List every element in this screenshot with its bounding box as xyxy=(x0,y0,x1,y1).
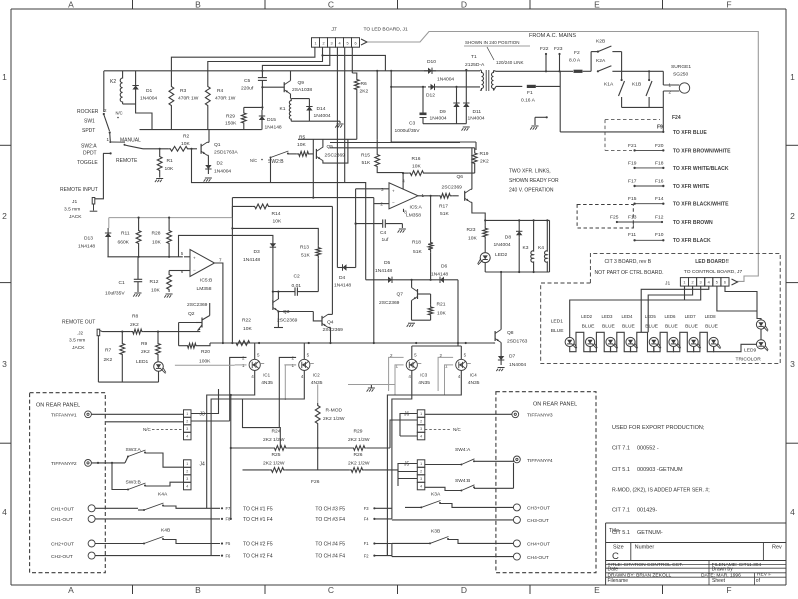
resistor R18 xyxy=(412,195,433,280)
svg-text:F2: F2 xyxy=(364,553,370,558)
switch SW3:B xyxy=(111,462,184,491)
fuse F23 xyxy=(554,46,563,71)
svg-text:LED7: LED7 xyxy=(685,314,697,319)
LED LED7 xyxy=(685,314,701,349)
svg-text:3: 3 xyxy=(186,427,188,431)
svg-text:D12: D12 xyxy=(426,93,435,99)
svg-text:Q2: Q2 xyxy=(188,311,195,317)
svg-text:J5: J5 xyxy=(404,462,410,468)
wire xyxy=(662,107,664,131)
svg-text:.J2: .J2 xyxy=(77,331,84,336)
svg-text:ROCKER: ROCKER xyxy=(77,109,99,115)
label led board xyxy=(684,259,743,275)
capacitor C4 xyxy=(355,219,403,243)
svg-text:2K2: 2K2 xyxy=(480,159,489,165)
terminal TIFFANY#1 xyxy=(51,411,91,419)
wire xyxy=(231,447,390,449)
wire xyxy=(208,47,323,71)
svg-text:2SC2369: 2SC2369 xyxy=(379,300,400,306)
svg-text:10K: 10K xyxy=(297,142,306,148)
diode D2 xyxy=(205,160,231,175)
svg-text:D13: D13 xyxy=(84,236,93,242)
svg-text:F1: F1 xyxy=(364,541,370,546)
resistor R11 xyxy=(118,217,142,257)
svg-text:J1: J1 xyxy=(72,199,77,205)
svg-text:CH2+OUT: CH2+OUT xyxy=(51,542,74,548)
svg-text:C1: C1 xyxy=(119,280,126,286)
transistor Q4 xyxy=(313,206,343,343)
svg-text:3: 3 xyxy=(2,359,7,369)
wire xyxy=(175,364,235,366)
svg-text:REMOTE OUT: REMOTE OUT xyxy=(62,320,95,326)
relay contact K1A xyxy=(604,71,625,107)
svg-text:N/C: N/C xyxy=(116,111,123,116)
resistor R19 xyxy=(472,148,489,173)
svg-text:D7: D7 xyxy=(509,354,516,360)
svg-text:LED1: LED1 xyxy=(551,319,564,325)
svg-text:2K2 1/2W: 2K2 1/2W xyxy=(348,461,370,467)
wire xyxy=(390,70,476,150)
wire xyxy=(169,257,190,271)
svg-text:FROM A.C. MAINS: FROM A.C. MAINS xyxy=(529,33,576,39)
svg-text:R13: R13 xyxy=(300,245,309,251)
terminal CH3+OUT xyxy=(513,504,550,512)
svg-text:1: 1 xyxy=(790,72,795,82)
svg-text:F16: F16 xyxy=(655,178,664,184)
svg-text:Filename: Filename xyxy=(608,578,629,584)
svg-text:000552 -: 000552 - xyxy=(637,445,659,451)
svg-text:J3: J3 xyxy=(200,412,206,418)
fuse F5 row xyxy=(221,541,273,547)
svg-text:LED3: LED3 xyxy=(602,314,614,319)
svg-text:TO CONTROL BOARD, J7: TO CONTROL BOARD, J7 xyxy=(684,269,743,275)
svg-text:IC4: IC4 xyxy=(470,372,477,377)
diode D4 xyxy=(334,223,357,289)
switch SW2:B xyxy=(250,151,297,183)
svg-text:1000uf/35V: 1000uf/35V xyxy=(395,128,421,134)
svg-text:4: 4 xyxy=(338,41,340,45)
wire xyxy=(232,205,332,207)
wire xyxy=(95,507,138,509)
svg-text:K1: K1 xyxy=(280,106,286,112)
wire xyxy=(285,365,296,400)
svg-text:Q9: Q9 xyxy=(298,80,305,86)
transistor Q7 xyxy=(379,280,431,320)
svg-text:DPDT: DPDT xyxy=(83,151,97,157)
svg-text:220uf: 220uf xyxy=(241,86,254,92)
svg-text:1N4004: 1N4004 xyxy=(140,96,157,102)
capacitor C3 xyxy=(395,87,427,134)
svg-text:BLUE: BLUE xyxy=(582,323,596,329)
svg-text:TO CH #2 F4: TO CH #2 F4 xyxy=(243,554,273,560)
svg-text:C: C xyxy=(612,551,619,562)
wire xyxy=(351,47,353,73)
capacitor C5 xyxy=(241,70,267,92)
svg-text:0.16 A: 0.16 A xyxy=(521,98,536,104)
wire xyxy=(232,197,373,199)
terminal CH1+OUT xyxy=(51,505,95,513)
svg-text:CH4+OUT: CH4+OUT xyxy=(527,542,550,548)
wire xyxy=(262,47,329,71)
resistor R25 xyxy=(263,452,286,472)
transistor Q8 xyxy=(493,330,528,345)
wire xyxy=(108,218,110,228)
fuse F17-F16 xyxy=(628,178,710,190)
connector J3 xyxy=(184,410,206,440)
svg-text:SURGE1: SURGE1 xyxy=(671,64,691,70)
LED LED6 xyxy=(665,314,681,349)
fuse F8 row xyxy=(221,517,273,523)
svg-text:CIT 7.1: CIT 7.1 xyxy=(612,445,630,451)
ground xyxy=(155,179,163,183)
wire xyxy=(390,86,480,88)
svg-text:Q7: Q7 xyxy=(397,292,404,298)
fuse F11-F10 xyxy=(628,232,711,244)
op-amp IC5:B xyxy=(181,250,222,293)
wire xyxy=(717,286,757,311)
svg-text:C2: C2 xyxy=(294,274,301,280)
svg-text:2K2: 2K2 xyxy=(104,357,113,363)
svg-text:150K: 150K xyxy=(225,121,237,127)
svg-text:T1: T1 xyxy=(471,54,477,60)
svg-text:R29: R29 xyxy=(354,429,363,435)
capacitor C2 xyxy=(273,274,318,296)
wire xyxy=(641,286,709,332)
svg-text:1N4148: 1N4148 xyxy=(265,125,282,131)
wire xyxy=(243,469,391,471)
connector J6 xyxy=(400,410,425,440)
svg-text:+: + xyxy=(193,255,196,260)
wire xyxy=(725,286,761,320)
svg-text:10K: 10K xyxy=(151,288,160,294)
svg-text:470R 1W: 470R 1W xyxy=(178,96,199,102)
svg-text:10uf/35V: 10uf/35V xyxy=(105,291,125,297)
svg-text:BLUE: BLUE xyxy=(665,323,679,329)
svg-text:2K2 1/2W: 2K2 1/2W xyxy=(323,416,345,422)
svg-text:REMOTE: REMOTE xyxy=(116,158,138,164)
terminal TIFFANY#2 xyxy=(51,460,91,468)
svg-text:N/C: N/C xyxy=(250,158,257,163)
svg-text:10K: 10K xyxy=(437,311,446,317)
svg-text:LED1: LED1 xyxy=(136,359,149,365)
svg-text:F10: F10 xyxy=(655,232,664,238)
svg-text:K3A: K3A xyxy=(431,492,441,498)
resistor R2 xyxy=(168,134,197,152)
svg-text:GETNUM-: GETNUM- xyxy=(637,530,663,536)
panel box left xyxy=(30,393,106,573)
wire xyxy=(344,47,346,182)
ground xyxy=(204,178,212,182)
svg-text:BLUE: BLUE xyxy=(622,323,636,329)
svg-text:Rev: Rev xyxy=(772,545,782,551)
svg-text:1: 1 xyxy=(186,412,188,416)
svg-text:−: − xyxy=(193,267,196,272)
label from ac mains xyxy=(529,33,576,39)
svg-text:R3: R3 xyxy=(180,88,187,94)
svg-text:BLUE: BLUE xyxy=(685,323,699,329)
svg-text:4: 4 xyxy=(420,435,422,439)
LED LED9 xyxy=(736,320,769,363)
wire xyxy=(570,286,685,337)
svg-text:4: 4 xyxy=(2,507,7,517)
wire xyxy=(143,148,168,150)
svg-text:IC2: IC2 xyxy=(313,372,320,377)
wire xyxy=(184,507,221,509)
ground xyxy=(367,388,375,392)
svg-text:R9: R9 xyxy=(141,341,148,347)
svg-text:R29: R29 xyxy=(226,114,235,120)
wire xyxy=(425,413,512,415)
svg-text:−: − xyxy=(392,200,395,205)
svg-text:F3: F3 xyxy=(364,506,370,511)
svg-text:R25: R25 xyxy=(272,452,281,458)
ground xyxy=(462,127,470,131)
svg-text:R11: R11 xyxy=(121,231,130,237)
wire xyxy=(190,148,365,280)
svg-text:3: 3 xyxy=(420,427,422,431)
svg-text:K2A: K2A xyxy=(596,58,606,64)
svg-text:F: F xyxy=(726,585,731,594)
svg-text:IC5:B: IC5:B xyxy=(200,278,212,284)
resistor R4 xyxy=(205,71,235,130)
svg-text:2K2 1/2W: 2K2 1/2W xyxy=(263,437,285,443)
diode D12 xyxy=(426,84,437,99)
wire xyxy=(418,195,438,197)
note cit71b xyxy=(612,508,657,514)
wire xyxy=(392,544,514,557)
svg-text:LM358: LM358 xyxy=(406,213,421,219)
svg-text:SG250: SG250 xyxy=(673,72,689,78)
ground xyxy=(164,294,172,298)
resistor R29b xyxy=(348,429,370,451)
svg-text:2SC2369: 2SC2369 xyxy=(187,302,208,308)
svg-text:Sheet: Sheet xyxy=(712,578,726,584)
wire xyxy=(140,129,262,131)
svg-text:C3: C3 xyxy=(409,121,416,127)
svg-text:F14: F14 xyxy=(655,196,664,202)
svg-text:K3B: K3B xyxy=(431,529,440,535)
svg-text:J6: J6 xyxy=(404,412,410,418)
svg-text:1N4004: 1N4004 xyxy=(437,77,454,83)
svg-text:51K: 51K xyxy=(413,249,422,255)
wire xyxy=(356,173,404,189)
svg-text:1N4148: 1N4148 xyxy=(78,244,95,250)
svg-text:LED9: LED9 xyxy=(744,348,757,354)
svg-text:2: 2 xyxy=(691,280,693,284)
svg-text:2SC2369: 2SC2369 xyxy=(277,318,298,324)
svg-text:ON REAR PANEL: ON REAR PANEL xyxy=(533,402,577,408)
svg-text:J7: J7 xyxy=(331,27,337,33)
dashed link box 2 xyxy=(577,205,633,229)
transistor Q3 xyxy=(273,292,313,328)
svg-text:1N4004: 1N4004 xyxy=(494,242,511,248)
relay K4 xyxy=(538,219,548,272)
svg-text:Number: Number xyxy=(635,545,655,551)
svg-text:2K2: 2K2 xyxy=(130,322,139,328)
resistor R7 xyxy=(104,332,125,383)
svg-text:1uf: 1uf xyxy=(382,237,389,243)
dashed link box xyxy=(605,120,660,151)
svg-text:D11: D11 xyxy=(473,109,482,115)
svg-text:TO XFR BLACK/WHITE: TO XFR BLACK/WHITE xyxy=(673,202,729,208)
ground xyxy=(496,368,504,372)
wire xyxy=(496,70,573,72)
svg-text:1: 1 xyxy=(314,41,316,45)
wire xyxy=(374,198,389,343)
wire xyxy=(230,395,232,520)
svg-text:A: A xyxy=(68,585,74,594)
svg-text:1N4148: 1N4148 xyxy=(431,272,448,278)
svg-text:10K: 10K xyxy=(468,236,477,242)
svg-text:+: + xyxy=(392,189,395,194)
svg-text:2: 2 xyxy=(186,470,188,474)
LED LED8 xyxy=(705,314,721,349)
svg-text:F1: F1 xyxy=(527,90,533,96)
opto-isolator IC3 xyxy=(389,346,431,395)
svg-text:3: 3 xyxy=(420,477,422,481)
note cit51b xyxy=(612,530,663,536)
svg-text:1: 1 xyxy=(420,462,422,466)
svg-text:TOGGLE: TOGGLE xyxy=(77,160,98,166)
wire xyxy=(107,242,182,258)
svg-text:Q4: Q4 xyxy=(327,320,334,326)
svg-text:CH3+OUT: CH3+OUT xyxy=(527,506,550,512)
wire xyxy=(106,420,230,423)
svg-text:1N4148: 1N4148 xyxy=(375,268,392,274)
svg-text:TO CH #4 F5: TO CH #4 F5 xyxy=(315,542,345,548)
svg-text:100K: 100K xyxy=(199,359,211,365)
wire xyxy=(231,206,233,217)
resistor R3 xyxy=(169,71,199,130)
svg-text:ON REAR PANEL: ON REAR PANEL xyxy=(36,403,80,409)
svg-text:TO CH #1 F4: TO CH #1 F4 xyxy=(243,517,273,523)
svg-text:F13: F13 xyxy=(628,214,637,220)
diode D7 xyxy=(498,351,527,368)
svg-text:F18: F18 xyxy=(655,160,664,166)
svg-text:F17: F17 xyxy=(628,178,637,184)
svg-text:TO CH #3 F4: TO CH #3 F4 xyxy=(315,517,345,523)
resistor R29 xyxy=(225,106,264,129)
switch SW1 xyxy=(77,108,123,142)
resistor R-MOD xyxy=(315,385,345,449)
svg-text:K2: K2 xyxy=(110,79,116,85)
wire to xfr blue xyxy=(560,130,707,136)
svg-text:E: E xyxy=(594,585,600,594)
svg-text:C5: C5 xyxy=(244,78,251,84)
svg-text:F23: F23 xyxy=(554,46,563,52)
svg-text:R7: R7 xyxy=(105,348,112,354)
svg-text:TIFFANY#4: TIFFANY#4 xyxy=(527,458,553,464)
ground xyxy=(335,124,343,128)
note rmod xyxy=(612,488,710,494)
resistor R8 xyxy=(130,314,144,335)
resistor R21 xyxy=(412,294,447,320)
resistor R13 xyxy=(231,227,320,291)
svg-text:3.5 mm: 3.5 mm xyxy=(64,207,80,213)
switch K2A xyxy=(596,58,663,72)
LED LED2 xyxy=(478,252,508,272)
label TO CH3/4 xyxy=(315,506,345,559)
wire xyxy=(191,389,218,414)
svg-text:SW1: SW1 xyxy=(84,119,95,125)
diode D15 xyxy=(259,87,282,130)
svg-text:NOT PART OF CTRL BOARD.: NOT PART OF CTRL BOARD. xyxy=(595,270,664,276)
switch K4B xyxy=(95,528,220,545)
resistor R9 xyxy=(136,332,160,365)
svg-text:CH2-OUT: CH2-OUT xyxy=(51,554,73,560)
wire xyxy=(321,54,385,71)
wire xyxy=(559,71,561,132)
label cit3 board xyxy=(595,259,664,276)
svg-text:IC3: IC3 xyxy=(420,372,427,377)
svg-text:1: 1 xyxy=(420,412,422,416)
opto-isolator IC2 xyxy=(279,343,322,428)
svg-text:3: 3 xyxy=(330,41,332,45)
LED LED4 xyxy=(622,314,638,349)
svg-text:1N4148: 1N4148 xyxy=(334,283,351,289)
resistor R6 xyxy=(352,73,368,139)
opto-isolator IC4 xyxy=(438,346,480,395)
wire xyxy=(210,342,495,344)
LED LED3 xyxy=(602,314,618,349)
switch K3A xyxy=(405,492,513,509)
resistor R12 xyxy=(150,271,172,294)
wire xyxy=(91,413,183,415)
connector J1 led board xyxy=(665,278,738,287)
terminal CH2-OUT xyxy=(51,552,95,560)
note export xyxy=(612,425,705,431)
svg-text:R16: R16 xyxy=(412,156,421,162)
svg-text:R2: R2 xyxy=(183,134,190,140)
wire xyxy=(648,286,692,332)
svg-text:F: F xyxy=(726,0,731,10)
svg-text:3: 3 xyxy=(790,359,795,369)
svg-text:N/C: N/C xyxy=(453,427,462,432)
fuse F2 row xyxy=(364,553,392,558)
diode D8 xyxy=(494,220,523,272)
svg-text:K4A: K4A xyxy=(158,492,168,498)
wire xyxy=(98,381,158,383)
svg-text:TO CH #3 F5: TO CH #3 F5 xyxy=(315,506,345,512)
svg-text:51K: 51K xyxy=(440,211,449,217)
label F24 xyxy=(672,115,681,121)
transistor Q5 xyxy=(316,139,348,163)
led board dashed outline xyxy=(541,253,781,363)
svg-text:1N4004: 1N4004 xyxy=(214,169,231,175)
switch K4A xyxy=(138,492,184,512)
wire xyxy=(570,332,714,351)
svg-text:D: D xyxy=(461,585,467,594)
svg-text:2K2: 2K2 xyxy=(141,349,150,355)
svg-text:K2B: K2B xyxy=(596,39,605,45)
note cit71a xyxy=(612,445,659,451)
svg-text:6: 6 xyxy=(354,41,356,45)
svg-text:of: of xyxy=(756,578,761,584)
wire xyxy=(392,381,412,519)
terminal TIFFANY#4 xyxy=(514,456,553,464)
fuse F3 row xyxy=(364,506,392,511)
svg-text:SPDT: SPDT xyxy=(82,128,95,134)
wire xyxy=(336,47,338,267)
diode D14 xyxy=(306,99,331,122)
svg-text:Size: Size xyxy=(613,545,624,551)
earth ground xyxy=(530,116,548,129)
ground xyxy=(407,323,415,327)
svg-text:R21: R21 xyxy=(437,302,446,308)
svg-text:10K: 10K xyxy=(181,141,190,147)
svg-text:CH3-OUT: CH3-OUT xyxy=(527,518,549,524)
svg-text:F4: F4 xyxy=(364,517,370,522)
